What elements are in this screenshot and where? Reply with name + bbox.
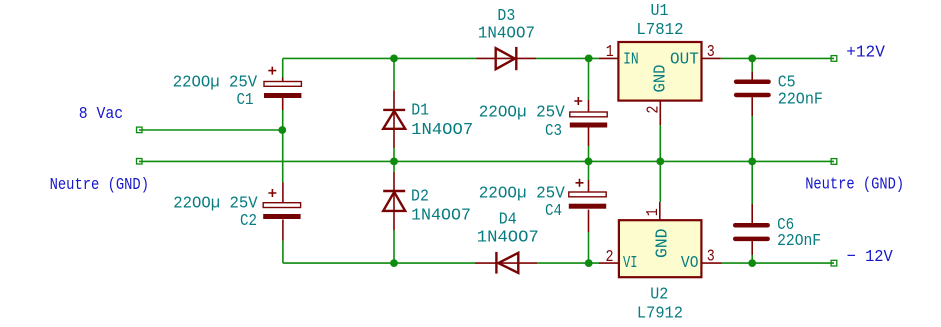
svg-text:Neutre (GND): Neutre (GND) — [50, 176, 149, 195]
svg-text:C2: C2 — [240, 212, 257, 231]
svg-text:L7912: L7912 — [637, 304, 683, 323]
svg-text:GND: GND — [654, 229, 673, 259]
svg-text:GND: GND — [652, 65, 671, 93]
svg-text:22OOµ 25V: 22OOµ 25V — [479, 104, 566, 123]
svg-text:22OnF: 22OnF — [777, 232, 821, 251]
svg-text:− 12V: − 12V — [847, 248, 894, 267]
svg-text:VO: VO — [681, 254, 699, 273]
svg-text:22OOµ 25V: 22OOµ 25V — [479, 185, 566, 204]
svg-text:C4: C4 — [545, 202, 562, 221]
svg-text:1N4OO7: 1N4OO7 — [411, 207, 471, 226]
svg-text:2: 2 — [645, 106, 664, 114]
svg-text:3: 3 — [707, 43, 715, 62]
svg-text:D2: D2 — [411, 188, 429, 207]
svg-text:Neutre (GND): Neutre (GND) — [805, 176, 904, 195]
svg-text:+12V: +12V — [846, 44, 885, 63]
svg-text:3: 3 — [707, 248, 715, 267]
svg-text:8 Vac: 8 Vac — [79, 105, 123, 124]
svg-text:1: 1 — [606, 43, 614, 62]
svg-text:1N4OO7: 1N4OO7 — [478, 25, 535, 44]
svg-text:VI: VI — [623, 254, 638, 273]
svg-text:L7812: L7812 — [636, 21, 683, 40]
svg-text:OUT: OUT — [670, 51, 699, 70]
svg-text:U2: U2 — [650, 285, 668, 304]
svg-text:22OnF: 22OnF — [778, 90, 823, 109]
svg-text:IN: IN — [623, 51, 639, 70]
svg-text:1N4OO7: 1N4OO7 — [477, 228, 539, 247]
svg-text:U1: U1 — [651, 2, 669, 21]
svg-text:22OOµ 25V: 22OOµ 25V — [173, 195, 258, 214]
svg-text:D3: D3 — [497, 7, 515, 26]
svg-text:D4: D4 — [499, 210, 517, 229]
svg-text:22OOµ 25V: 22OOµ 25V — [173, 73, 258, 92]
svg-text:D1: D1 — [411, 102, 429, 121]
svg-text:1: 1 — [644, 208, 663, 216]
svg-text:1N4OO7: 1N4OO7 — [411, 121, 473, 140]
svg-text:C3: C3 — [545, 122, 562, 141]
svg-text:C1: C1 — [237, 91, 254, 110]
svg-text:2: 2 — [606, 248, 614, 267]
